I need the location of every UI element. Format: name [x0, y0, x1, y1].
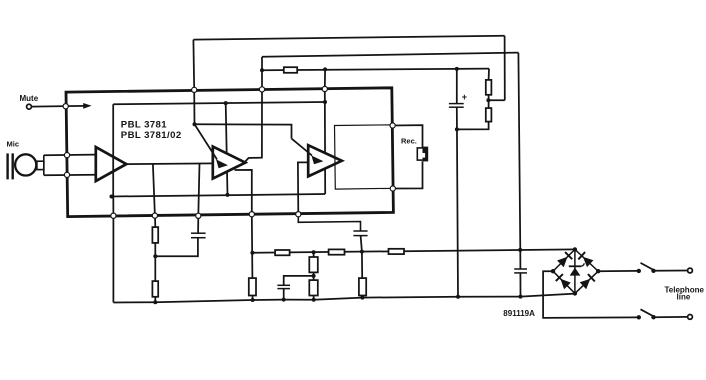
wire amp1 output — [126, 162, 213, 165]
node bridge top — [573, 247, 577, 251]
pin in+ — [64, 153, 69, 158]
wire junction down to pin B2 — [153, 164, 155, 216]
node L3 cap branch — [455, 67, 459, 71]
wire v113 to pin and bottom bus corner — [112, 197, 114, 303]
node RB return — [455, 127, 459, 131]
node rail1-v225 — [224, 101, 228, 105]
pin T3 — [322, 86, 327, 91]
capacitor C5 electrolytic plates — [449, 104, 464, 108]
resistor R3 — [249, 278, 256, 295]
microphone bracket vertical — [43, 155, 45, 175]
op-amp U1c triangle — [308, 145, 342, 176]
bridge center zener vertical — [574, 249, 576, 293]
svg-text:line: line — [677, 293, 691, 302]
pin mute — [63, 104, 68, 109]
pin B1 — [111, 213, 116, 218]
node gain arrow branch — [193, 122, 197, 126]
wire L3 third top line — [262, 69, 489, 71]
resistor R4 — [275, 250, 290, 255]
op-amp U1b triangle — [213, 147, 246, 179]
resistor RL3 on L3 — [284, 67, 297, 73]
wire pin B4 vertical through rail to R3 — [251, 214, 254, 278]
mute arrowhead — [83, 103, 91, 109]
node R5-R6 — [312, 274, 316, 278]
microphone output tab — [37, 161, 44, 169]
node bus-L2vert — [519, 295, 523, 299]
wire L1 right to node between RA RB — [488, 99, 504, 101]
wire v325 pin3 vertical through amp3 to rail2 — [324, 89, 326, 194]
node terminal upper — [688, 268, 693, 273]
node S2 contact a — [637, 315, 641, 319]
node rail-C3 — [360, 250, 364, 254]
wire C1 bottom to node R1R2 — [155, 238, 198, 257]
wire amp2 output up to pin T2 — [245, 89, 262, 161]
capacitor C2 — [277, 285, 290, 288]
diode top-left — [557, 252, 572, 267]
wire rail1 internal upper — [113, 102, 325, 104]
capacitor C4 plates — [514, 269, 527, 273]
wire cap C5 bottom long vertical to bus — [457, 107, 458, 297]
microphone circle — [15, 154, 36, 175]
svg-text:Mute: Mute — [20, 94, 39, 103]
wire L3 drop to pin 3 — [324, 69, 326, 89]
capacitor C1 — [191, 233, 206, 238]
wire amp2 lower tap to pin B4 — [235, 170, 252, 214]
wire below capacitor C4 to bottom bus — [519, 273, 521, 297]
wire C2 to bus — [283, 289, 285, 300]
resistor R2 — [152, 281, 158, 297]
wire cap C2 branch — [284, 276, 314, 285]
node S1 contact a — [637, 269, 641, 273]
svg-text:PBL 3781/02: PBL 3781/02 — [121, 130, 182, 141]
wire pin B3 to cap C1 — [197, 216, 199, 233]
receiver coupling sub-box — [335, 125, 394, 189]
node bus-R3 — [251, 298, 255, 302]
op-amp U1a triangle — [96, 147, 127, 181]
wire v225 connecting rails — [226, 103, 228, 195]
resistor R5 — [309, 257, 318, 272]
capacitor C3 — [353, 231, 367, 236]
switch S2 lever — [641, 309, 655, 317]
zener diode center — [569, 263, 585, 275]
pin R2out — [390, 186, 395, 191]
node rail-R5 — [312, 250, 316, 254]
node bridge left — [551, 269, 555, 273]
resistor R7 — [329, 249, 345, 254]
node bus-R8 — [360, 296, 364, 300]
wire R6 to bus — [313, 296, 315, 300]
node bus-C5vert — [456, 295, 460, 299]
pin T1 — [192, 87, 197, 92]
node rail left — [250, 251, 254, 255]
diode bridge D1 outline — [553, 249, 598, 293]
svg-text:Rec.: Rec. — [401, 137, 417, 146]
node L3 pin drop — [323, 67, 327, 71]
node rail1 right end — [323, 100, 327, 104]
pin B3 — [196, 213, 201, 218]
wire lower rail to bridge top — [252, 249, 575, 252]
svg-text:+: + — [462, 92, 467, 102]
wire rail node to R5 — [313, 252, 315, 257]
IC pins open circles — [63, 86, 395, 218]
microphone electret bars — [8, 153, 13, 179]
svg-text:891119A: 891119A — [503, 309, 535, 318]
wire pin B5 jog to cap C3 — [298, 214, 360, 231]
pin T2 — [259, 87, 264, 92]
node rail2 left — [110, 195, 114, 199]
pin in- — [64, 172, 69, 177]
wire L1 top feedback line — [193, 36, 504, 40]
wire v113 internal vertical through amp1 — [112, 104, 114, 196]
wire R2 to bus — [154, 297, 156, 302]
wire RB bottom to cap branch — [457, 122, 489, 130]
pin B5 — [296, 212, 301, 217]
wire receiver loop bottom — [393, 161, 423, 188]
wire L1 right vertical down — [504, 36, 506, 101]
wire pin B2 chain to R1 — [154, 216, 156, 228]
wire L1 left vertical to pin — [192, 40, 195, 90]
node S2 contact b — [651, 315, 655, 319]
wire bridge right to switch — [598, 270, 639, 272]
node bus-R6 — [312, 298, 316, 302]
diode top-right — [578, 252, 593, 267]
diode bottom-left — [556, 274, 571, 289]
wire L3 corner down to resistor RA — [488, 69, 490, 80]
wire L2 left vertical to pin — [261, 57, 263, 90]
wire cap C5 top branch — [456, 69, 458, 104]
wire RA to node — [488, 95, 490, 108]
wire R1 to node — [154, 243, 156, 281]
wire R8 top from rail — [361, 252, 363, 279]
receiver Rec earpiece symbol — [417, 147, 428, 162]
resistor RB — [486, 108, 492, 122]
amp2 gain arrow — [195, 124, 229, 168]
wire S2 to terminal — [654, 316, 688, 318]
wire pin1 vertical to arrow node — [193, 90, 195, 124]
IC U1 box PBL3781 — [66, 88, 393, 217]
wire R5 to node — [313, 272, 315, 280]
resistor R9 — [389, 249, 405, 254]
pin B4 — [249, 212, 254, 217]
wire mic upper lead to amp — [44, 154, 96, 157]
node R1-R2 — [153, 254, 157, 258]
svg-text:Mic: Mic — [7, 140, 20, 149]
wire mic lower lead to amp — [44, 174, 96, 177]
wire L2 long right vertical to bridge bus — [518, 53, 520, 269]
node terminal lower — [688, 315, 693, 320]
resistor RA — [486, 80, 492, 95]
wire R8 to bus — [361, 296, 363, 298]
wire gain control line to amp3 — [195, 124, 292, 138]
wire L2 second top line — [262, 53, 518, 57]
node S1 contact b — [651, 269, 655, 273]
node bus-C2 — [282, 298, 286, 302]
amp3 gain arrow — [292, 139, 324, 165]
node L3 start — [260, 68, 264, 72]
wire receiver loop top — [393, 125, 423, 148]
pin R1out — [390, 123, 395, 128]
wire R3 to bus — [252, 296, 254, 301]
node RA-RB — [486, 98, 490, 102]
wire mute input — [31, 105, 84, 108]
node bridge right — [596, 269, 600, 273]
wire C3 to rail — [361, 236, 362, 252]
switch S1 lever — [641, 263, 655, 271]
resistor R6 — [309, 280, 318, 295]
node Mute terminal — [27, 104, 32, 109]
node rail2-v225 — [226, 193, 230, 197]
node bus-R2 — [153, 300, 157, 304]
wire junction down to pin B3 — [198, 164, 199, 216]
node rail-L2vert — [518, 248, 522, 252]
wire bottom bus — [113, 294, 575, 303]
resistor R1 — [152, 227, 158, 243]
wire S1 to terminal — [654, 270, 688, 272]
diode bottom-right — [580, 274, 595, 289]
wire amp3 input from pin B5 — [298, 162, 308, 214]
resistor R8 — [359, 278, 366, 295]
wire rail2 internal lower — [112, 194, 326, 197]
pin B2 — [152, 213, 157, 218]
wire bridge left jog to lower line — [543, 271, 639, 318]
node bridge bottom — [573, 291, 577, 295]
